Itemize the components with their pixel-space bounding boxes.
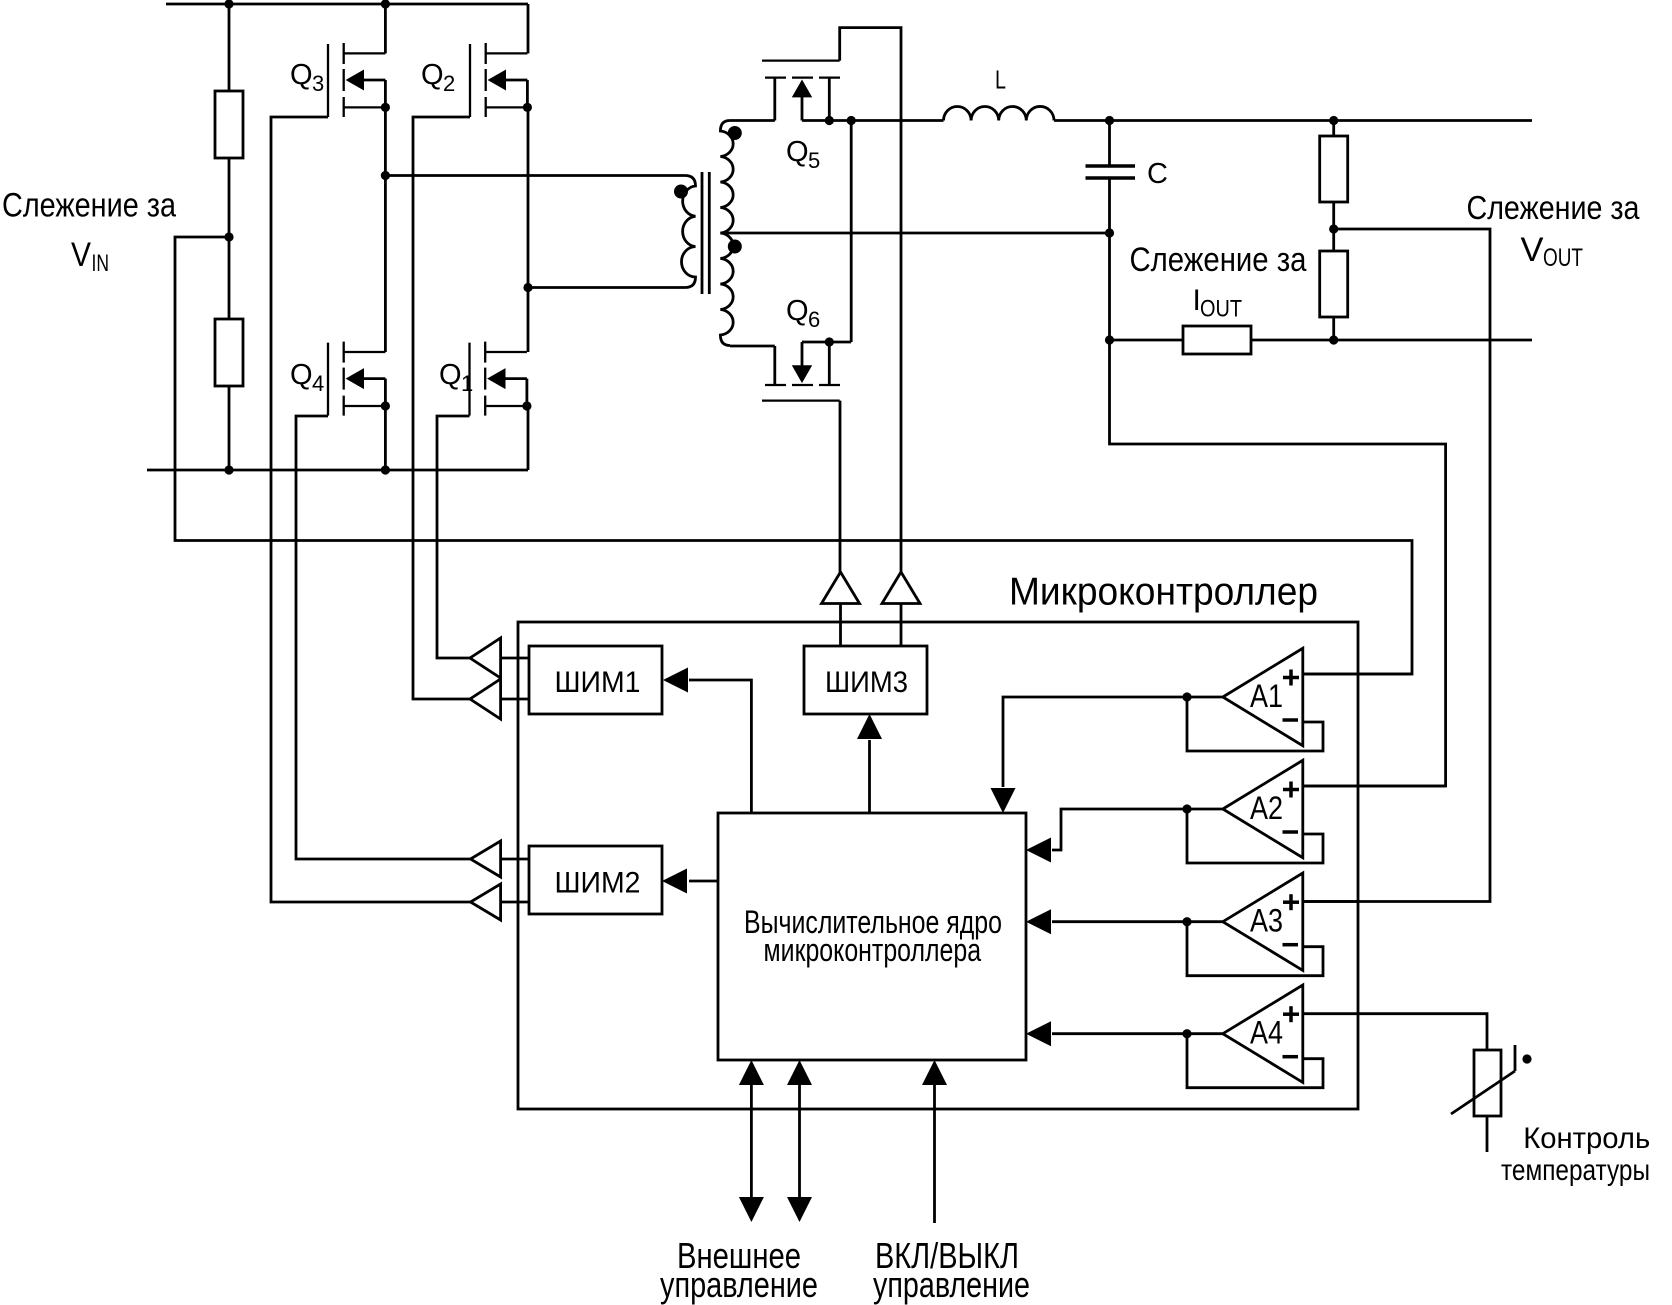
svg-text:4: 4 (312, 371, 324, 396)
node: +rail / Q3 drain junction (381, 0, 390, 9)
block PWM3 (ShIM3) (804, 646, 927, 714)
svg-text:2: 2 (443, 71, 455, 96)
node: VOUT divider tap (1329, 224, 1338, 233)
svg-text:Слежение за: Слежение за (1467, 189, 1641, 226)
wire: A1 output to core (arrow) (1003, 697, 1223, 787)
wire: phase node A to primary (385, 174, 685, 177)
svg-text:микроконтроллера: микроконтроллера (764, 932, 982, 968)
svg-text:A4: A4 (1250, 1015, 1283, 1051)
resistor R1 (VIN divider upper) (215, 91, 243, 158)
svg-text:OUT: OUT (1543, 244, 1583, 272)
svg-text:ШИМ2: ШИМ2 (555, 867, 641, 900)
wire: C bottom lead to return (1108, 178, 1111, 340)
op-amp A1 (1223, 648, 1303, 745)
svg-text:Слежение за: Слежение за (2, 187, 176, 225)
svg-text:Q: Q (290, 59, 313, 91)
wire: VIN sense tap to A1+ (175, 237, 1412, 674)
wire: VOUT divider middle (1332, 202, 1335, 251)
wire: A2 + input (1303, 785, 1446, 788)
buffer driver B4 (PWM2 to Q3) (471, 884, 501, 920)
wire: on/off control line (arrow into core) (933, 1085, 936, 1223)
wire: A1 feedback (1182, 692, 1323, 751)
wire: Q6 source (802, 341, 851, 344)
svg-text:Q: Q (439, 359, 462, 391)
buffer driver B6 (PWM3 to Q5) (882, 572, 920, 604)
buffer driver B2 (PWM1 to Q2) (470, 679, 501, 719)
wire: core to PWM1 (arrow) (689, 680, 751, 813)
op-amp A3 (1223, 873, 1303, 970)
transformer core (701, 172, 704, 294)
wire: Q3 source to Q4 drain (phase node A) (384, 107, 387, 352)
buffer driver B3 (PWM2 to Q4) (471, 841, 501, 877)
wire: A4 output to core (arrow) (1052, 1032, 1223, 1035)
wire: A3 feedback (1182, 917, 1323, 976)
wire: VOUT divider top lead (1332, 121, 1335, 137)
wire: Q1 gate to buffer (437, 416, 470, 658)
wire: input + rail (166, 3, 528, 6)
svg-text:1: 1 (461, 371, 473, 396)
wire: B6 to PWM3 (900, 604, 903, 647)
core block: Vychislitelnoe yadro (718, 813, 1026, 1060)
thermistor RT (1474, 1050, 1501, 1116)
svg-text:Слежение за: Слежение за (1130, 241, 1307, 279)
svg-text:V: V (71, 236, 91, 274)
buffer driver B1 (PWM1 to Q1) (470, 638, 501, 678)
transistor Q2 (421, 43, 532, 117)
transformer T1 secondary winding (720, 121, 733, 346)
svg-text:управление: управление (873, 1264, 1030, 1305)
transformer secondary lower phase dot (728, 240, 742, 254)
transistor Q1 (439, 342, 532, 416)
wire: R2 to - rail (228, 386, 231, 470)
svg-text:3: 3 (312, 71, 324, 96)
node: return / IOUT sense (1105, 335, 1114, 344)
wire: input - rail (147, 469, 528, 472)
wire: A3 output to core (arrow) (1052, 920, 1223, 923)
wire: B5 to PWM3 (839, 604, 842, 647)
wire: between divider resistors (228, 158, 231, 319)
svg-text:L: L (995, 65, 1006, 95)
svg-text:OUT: OUT (1200, 296, 1242, 323)
node: output rail / VOUT divider (1329, 116, 1338, 125)
transistor Q6 (762, 295, 840, 401)
wire: A3 + input (1303, 900, 1358, 903)
buffer driver B5 (PWM3 to Q6) (822, 572, 860, 604)
svg-text:Q: Q (421, 59, 444, 91)
wire: output - rail (1251, 339, 1532, 342)
wire: Q4 source to -rail (384, 406, 387, 471)
transformer T1 primary winding (682, 176, 696, 288)
resistor R1 (VIN divider upper) lead (228, 4, 231, 91)
wire: Q4 gate to buffer (296, 416, 470, 859)
svg-text:температуры: температуры (1501, 1154, 1650, 1187)
resistor RS (IOUT shunt) (1183, 326, 1251, 354)
node: L-C junction (1105, 116, 1114, 125)
transistor Q5 (762, 61, 840, 173)
svg-text:A3: A3 (1250, 903, 1283, 939)
wire: Q3 drain to +rail (384, 4, 387, 53)
wire: Q2 gate to buffer (413, 117, 470, 699)
svg-text:управление: управление (660, 1264, 818, 1305)
svg-text:V: V (1521, 231, 1544, 269)
svg-text:Микроконтроллер: Микроконтроллер (1009, 571, 1318, 614)
wire: C top lead (1108, 121, 1111, 167)
node: return / center tap (1105, 228, 1114, 237)
node: +rail / VIN divider junction (224, 0, 233, 9)
wire: secondary center tap to output filter (720, 232, 1109, 235)
wire: external control line 2 (bidirectional arrow) (798, 1085, 801, 1197)
wire: B3 to PWM2 (501, 858, 529, 861)
transformer primary phase dot (674, 185, 688, 199)
resistor R2 (VIN divider lower) (215, 319, 243, 386)
svg-text:IN: IN (92, 250, 110, 277)
wire: Q6 gate lead (839, 401, 842, 572)
wire: A4 + input to thermistor (1303, 1014, 1487, 1050)
svg-text:C: C (1147, 158, 1168, 190)
node: output rail / Q5-Q6 tie (847, 116, 856, 125)
thermistor terminal dot (1522, 1054, 1531, 1063)
wire: Q3 gate to buffer (271, 117, 470, 902)
wire: B4 to PWM2 (501, 901, 529, 904)
wire: A1 + input (1303, 673, 1412, 676)
op-amp A4 (1223, 985, 1303, 1082)
svg-text:A2: A2 (1250, 790, 1283, 826)
capacitor C (1086, 164, 1136, 168)
svg-text:Q: Q (290, 359, 313, 391)
wire: Q5 source tie down to Q6 source (850, 121, 853, 343)
svg-text:ШИМ1: ШИМ1 (555, 666, 641, 699)
svg-text:6: 6 (808, 307, 820, 332)
wire: A2 feedback (1182, 804, 1323, 863)
wire: output + rail (1054, 119, 1532, 122)
wire: Q1 source to -rail (527, 406, 530, 471)
transformer secondary top phase dot (728, 126, 742, 140)
wire: IOUT sense left lead (1110, 339, 1184, 342)
wire: R4 bottom lead (1332, 317, 1335, 340)
node: VIN divider tap (224, 232, 233, 241)
transistor Q3 (290, 43, 390, 117)
wire: core to PWM3 (arrow) (868, 740, 871, 813)
node: phase node A (381, 171, 390, 180)
node: output - rail / VOUT divider (1329, 335, 1338, 344)
wire: B2 to PWM1 (501, 698, 529, 701)
transistor Q4 (290, 342, 390, 416)
block PWM1 (ShIM1) (529, 646, 662, 714)
wire: external control line 1 (bidirectional arrow) (750, 1085, 753, 1197)
op-amp A2 (1223, 760, 1303, 857)
microcontroller box U1 (518, 622, 1358, 1109)
wire: Q5 gate lead (840, 28, 901, 572)
svg-text:Q: Q (786, 295, 809, 327)
svg-text:Контроль: Контроль (1523, 1122, 1650, 1155)
wire: IOUT sense to A2+ (1110, 340, 1446, 786)
svg-text:Q: Q (786, 136, 809, 168)
wire: VOUT sense tap to A3+ (1303, 229, 1490, 902)
wire: phase node B to primary (528, 286, 685, 289)
wire: B1 to PWM1 (501, 657, 529, 660)
wire: A2 output to core (arrow) (1052, 809, 1223, 850)
resistor R3 (VOUT divider upper) (1320, 136, 1348, 202)
svg-text:A1: A1 (1250, 678, 1283, 714)
wire: +rail down to Q2 drain (527, 4, 530, 53)
inductor L (944, 106, 1054, 120)
block PWM2 (ShIM2) (529, 846, 662, 914)
wire: Q5 source to output rail (802, 119, 944, 122)
node: phase node B (523, 283, 532, 292)
svg-text:ШИМ3: ШИМ3 (825, 666, 908, 699)
wire: Q2 source to Q1 drain (phase node B) (527, 107, 530, 352)
wire: secondary bottom to Q6 drain (730, 345, 775, 348)
wire: core to PWM2 (arrow) (689, 880, 718, 883)
node: -rail / divider junction (224, 465, 233, 474)
resistor R4 (VOUT divider lower) (1320, 251, 1348, 317)
wire: A4 feedback (1182, 1029, 1323, 1088)
node: -rail / Q4 source junction (381, 465, 390, 474)
svg-text:5: 5 (808, 148, 820, 173)
wire: secondary top to Q5 drain (730, 119, 775, 122)
